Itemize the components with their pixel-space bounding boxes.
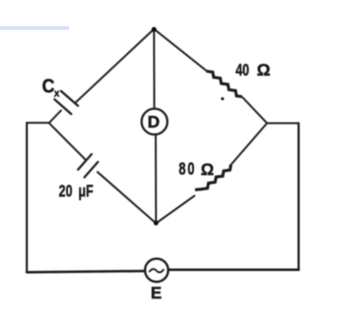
resistor R 40 ohm zigzag: [207, 71, 243, 97]
source E circle: [145, 259, 168, 282]
svg-text:E: E: [151, 284, 162, 302]
svg-text:μF: μF: [78, 183, 93, 201]
wire: left rail down: [26, 123, 28, 272]
wire: bottom right (source E to right rail corner): [168, 268, 299, 271]
svg-text:Ω: Ω: [201, 161, 214, 179]
wire: right rail up: [298, 123, 300, 270]
svg-text:20: 20: [59, 183, 73, 201]
wire: right stub to right node: [267, 122, 299, 124]
capacitor 20uF plate 2: [84, 162, 98, 177]
svg-text:80: 80: [179, 160, 196, 180]
wire: resistor 80ohm to bottom node: [156, 196, 194, 224]
wire: capacitor 20uF to bottom node: [98, 172, 157, 223]
node dot top: [152, 27, 157, 32]
resistor R 80 ohm zigzag: [195, 165, 231, 190]
svg-text:x: x: [54, 89, 60, 100]
detector D circle: [142, 109, 168, 135]
wire: resistor 40ohm to right node: [243, 98, 267, 124]
source E tilde symbol: [150, 269, 164, 272]
wire: left node stub to left rail: [27, 122, 49, 124]
wire: bottom left (rail corner to source E): [27, 271, 145, 272]
capacitor C_x plate 2: [55, 99, 72, 114]
svg-text:D: D: [148, 112, 160, 131]
wire: right node to resistor 80ohm: [231, 123, 268, 165]
wire: top node to resistor 40ohm: [154, 29, 207, 71]
wire: left node to capacitor 20uF: [49, 123, 85, 159]
wire: detector branch bottom (D to bottom node): [155, 134, 157, 223]
stray ink dot: [221, 97, 224, 100]
node dot bottom: [154, 221, 158, 225]
decorative blue highlight line: [0, 26, 69, 29]
capacitor C_x plate 1: [61, 91, 78, 106]
wire: detector branch top (top node to D): [153, 30, 155, 109]
wire: upper-left arm (top node to capacitor Cx): [76, 29, 154, 102]
svg-text:C: C: [42, 75, 55, 97]
capacitor 20uF plate 1: [78, 154, 92, 169]
wire: capacitor Cx to left node: [49, 111, 61, 124]
svg-text:40: 40: [236, 62, 250, 80]
svg-text:Ω: Ω: [257, 61, 271, 80]
